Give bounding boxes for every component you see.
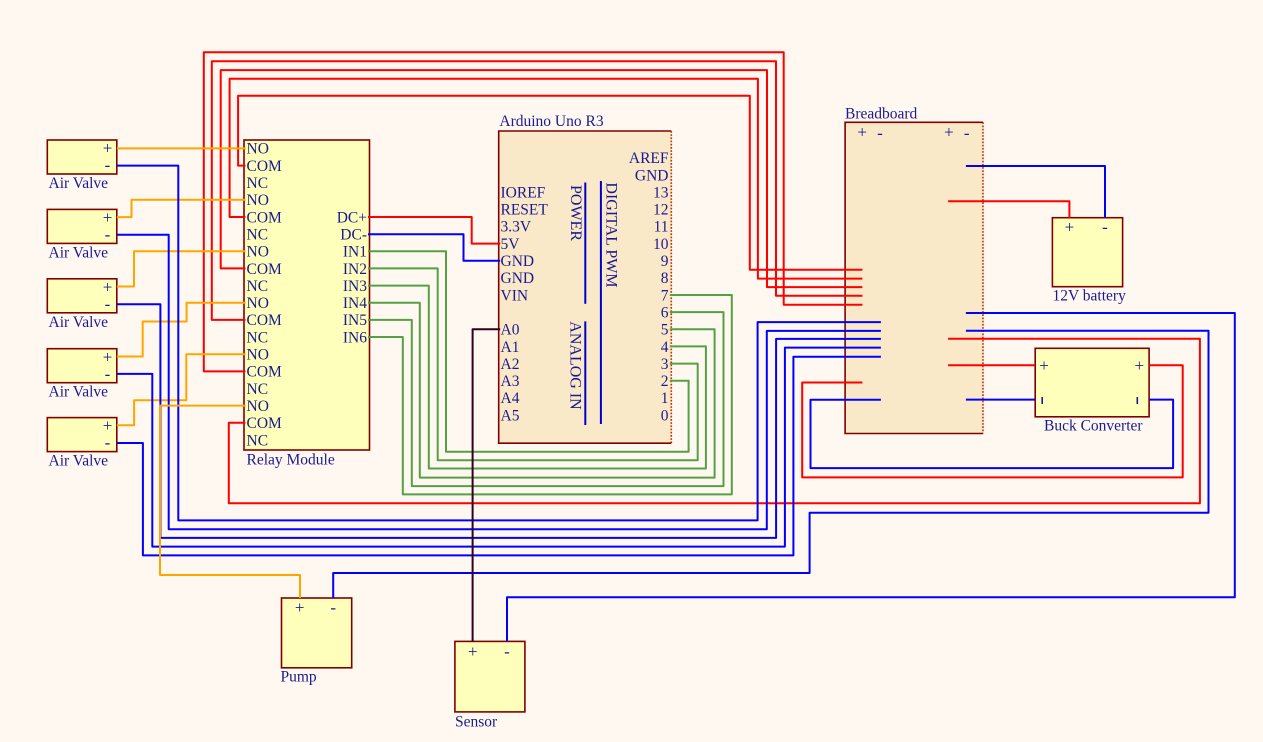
- breadboard: [845, 122, 983, 433]
- wire green relay IN1 to arduino pin 2: [368, 251, 689, 451]
- air valve V1: [47, 140, 117, 174]
- svg-text:5V: 5V: [501, 236, 521, 253]
- svg-text:A2: A2: [501, 356, 520, 373]
- svg-text:NC: NC: [247, 278, 269, 295]
- svg-text:Air Valve: Air Valve: [49, 453, 109, 470]
- svg-text:0: 0: [661, 407, 669, 424]
- svg-text:8: 8: [661, 270, 669, 287]
- svg-text:A4: A4: [501, 390, 520, 407]
- svg-text:+: +: [468, 642, 478, 661]
- sensor S1: [455, 641, 525, 712]
- relay module U2: [244, 140, 370, 450]
- svg-text:NO: NO: [247, 141, 269, 158]
- svg-text:NC: NC: [247, 175, 269, 192]
- svg-text:AREF: AREF: [629, 150, 669, 167]
- svg-text:DIGITAL PWM: DIGITAL PWM: [603, 182, 620, 287]
- wire red relay COM14 to breadboard plus: [204, 52, 863, 371]
- svg-text:-: -: [105, 433, 111, 452]
- wire blue breadboard right minus to buck in minus: [966, 399, 1035, 401]
- svg-text:Breadboard: Breadboard: [845, 106, 918, 123]
- svg-text:COM: COM: [247, 364, 283, 381]
- battery BT1 12V: [1052, 218, 1122, 287]
- wire red relay COM11 to breadboard plus: [212, 61, 863, 320]
- svg-text:COM: COM: [247, 415, 283, 432]
- svg-text:-: -: [105, 364, 111, 383]
- svg-text:-: -: [877, 123, 883, 142]
- wire green relay IN2 to arduino pin 3: [368, 268, 698, 460]
- svg-text:1: 1: [661, 390, 669, 407]
- svg-text:DC-: DC-: [340, 226, 367, 243]
- svg-text:Air Valve: Air Valve: [49, 384, 109, 401]
- wire orange valve5 plus to relay NO13: [117, 354, 246, 425]
- svg-text:+: +: [1065, 217, 1075, 236]
- svg-text:4: 4: [661, 339, 669, 356]
- wire orange valve3 plus to relay NO7: [117, 251, 246, 286]
- svg-text:A3: A3: [501, 373, 520, 390]
- wire blue relay DC- to arduino GND: [368, 234, 500, 261]
- air valve V2: [47, 209, 117, 243]
- svg-text:IN2: IN2: [343, 261, 367, 278]
- svg-text:12: 12: [653, 202, 669, 219]
- wire red relay COM2 to breadboard plus: [238, 96, 862, 270]
- svg-text:+: +: [295, 598, 305, 617]
- svg-text:-: -: [105, 225, 111, 244]
- wire red relay COM17 to breadboard right plus: [229, 339, 1200, 504]
- svg-text:A0: A0: [501, 322, 520, 339]
- svg-text:+: +: [944, 122, 954, 141]
- wire red breadboard right plus to battery plus: [948, 201, 1069, 217]
- wire red relay DC+ to arduino 5V: [368, 217, 500, 244]
- svg-text:10: 10: [653, 236, 669, 253]
- svg-text:6: 6: [661, 304, 669, 321]
- svg-text:GND: GND: [501, 253, 535, 270]
- wire orange valve1 plus to relay NO1: [117, 147, 246, 149]
- svg-text:NC: NC: [247, 329, 269, 346]
- svg-text:7: 7: [661, 287, 669, 304]
- buck converter input minus pin: [1041, 397, 1043, 404]
- pump M1: [282, 598, 352, 668]
- svg-text:NO: NO: [247, 347, 269, 364]
- wire blue valve2 minus to breadboard minus: [117, 235, 881, 530]
- wire blue pump minus to breadboard right minus: [333, 331, 1208, 598]
- svg-text:Air Valve: Air Valve: [49, 175, 109, 192]
- svg-text:Air Valve: Air Valve: [49, 244, 109, 261]
- svg-text:12V battery: 12V battery: [1053, 288, 1127, 305]
- wire green relay IN5 to arduino pin 6: [368, 312, 724, 486]
- svg-text:COM: COM: [247, 261, 283, 278]
- svg-text:GND: GND: [635, 167, 669, 184]
- wire green relay IN3 to arduino pin 4: [368, 286, 706, 469]
- svg-text:3: 3: [661, 356, 669, 373]
- arduino U1: [499, 131, 672, 443]
- svg-text:-: -: [504, 642, 510, 661]
- svg-text:COM: COM: [247, 312, 283, 329]
- svg-text:COM: COM: [247, 209, 283, 226]
- svg-text:2: 2: [661, 373, 669, 390]
- svg-text:IN1: IN1: [343, 244, 367, 261]
- svg-text:A5: A5: [501, 407, 520, 424]
- buck converter output minus pin: [1137, 397, 1139, 404]
- air valve V5: [47, 418, 117, 452]
- wire red relay COM8 to breadboard plus: [221, 70, 863, 287]
- wire red relay COM5 to breadboard plus: [230, 79, 863, 279]
- svg-text:COM: COM: [247, 158, 283, 175]
- svg-text:+: +: [1039, 356, 1049, 375]
- wire orange valve2 plus to relay NO4: [117, 200, 246, 217]
- svg-text:NC: NC: [247, 226, 269, 243]
- svg-text:IN3: IN3: [343, 278, 367, 295]
- svg-text:5: 5: [661, 322, 669, 339]
- wire blue sensor minus to breadboard right minus: [507, 313, 1235, 641]
- svg-text:3.3V: 3.3V: [501, 219, 532, 236]
- svg-text:NO: NO: [247, 192, 269, 209]
- svg-text:Pump: Pump: [281, 669, 317, 686]
- svg-text:-: -: [964, 123, 970, 142]
- wire blue buck out minus to breadboard left minus: [811, 400, 1174, 469]
- wire red breadboard right plus to buck in plus: [948, 364, 1035, 366]
- svg-text:-: -: [105, 294, 111, 313]
- svg-text:GND: GND: [501, 270, 535, 287]
- svg-text:-: -: [330, 598, 336, 617]
- air valve V3: [47, 279, 117, 313]
- wire blue valve4 minus to breadboard minus: [117, 348, 881, 547]
- svg-text:13: 13: [653, 184, 669, 201]
- wire green relay IN4 to arduino pin 5: [368, 303, 715, 478]
- air valve V4: [47, 349, 117, 383]
- svg-text:11: 11: [654, 219, 669, 236]
- svg-text:-: -: [105, 156, 111, 175]
- svg-text:Buck Converter: Buck Converter: [1044, 418, 1143, 435]
- svg-text:DC+: DC+: [337, 209, 367, 226]
- wire blue breadboard right minus to battery minus: [966, 166, 1105, 218]
- svg-text:IN4: IN4: [343, 295, 367, 312]
- svg-text:ANALOG IN: ANALOG IN: [567, 321, 584, 410]
- svg-text:NO: NO: [247, 398, 269, 415]
- svg-text:Air Valve: Air Valve: [49, 314, 109, 331]
- svg-text:-: -: [1102, 217, 1108, 236]
- wire orange relay NO16 to pump plus: [160, 406, 300, 598]
- svg-text:+: +: [857, 122, 867, 141]
- wire blue valve5 minus to breadboard minus: [117, 357, 881, 556]
- svg-text:VIN: VIN: [501, 287, 529, 304]
- buck converter U3: [1035, 348, 1149, 417]
- wire blue valve1 minus to breadboard minus: [117, 166, 881, 521]
- svg-text:NO: NO: [247, 244, 269, 261]
- svg-text:+: +: [1135, 356, 1145, 375]
- svg-text:NC: NC: [247, 381, 269, 398]
- svg-text:A1: A1: [501, 339, 520, 356]
- svg-text:NC: NC: [247, 432, 269, 449]
- wire green relay IN6 to arduino pin 7: [368, 295, 732, 494]
- svg-text:Relay Module: Relay Module: [247, 452, 335, 469]
- svg-text:Arduino Uno R3: Arduino Uno R3: [499, 113, 603, 130]
- wire red buck out plus to breadboard left plus: [802, 365, 1182, 477]
- svg-text:NO: NO: [247, 295, 269, 312]
- svg-text:POWER: POWER: [567, 185, 584, 241]
- svg-text:RESET: RESET: [501, 202, 549, 219]
- svg-text:IN5: IN5: [343, 312, 367, 329]
- svg-text:9: 9: [661, 253, 669, 270]
- svg-text:Sensor: Sensor: [455, 714, 498, 731]
- svg-text:IOREF: IOREF: [501, 184, 546, 201]
- wire orange valve4 plus to relay NO10: [117, 303, 246, 357]
- svg-text:IN6: IN6: [343, 329, 367, 346]
- wire dark sensor plus to arduino A0: [473, 329, 501, 641]
- wire blue valve3 minus to breadboard minus: [117, 304, 881, 538]
